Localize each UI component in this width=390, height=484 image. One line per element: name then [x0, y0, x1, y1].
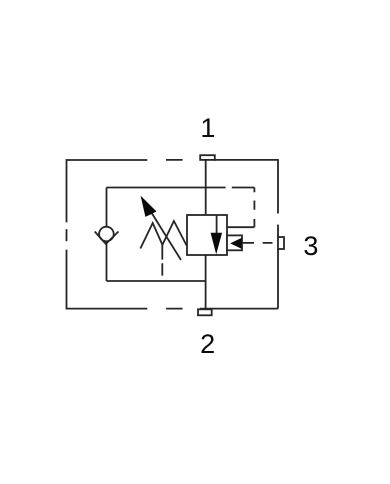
- inner envelope left edge: [106, 188, 108, 282]
- valve internal flow line: [216, 215, 218, 234]
- pilot box on valve right: [227, 235, 242, 250]
- svg-text:3: 3: [303, 231, 318, 261]
- boundary dash bottom short segment: [166, 308, 183, 310]
- svg-text:2: 2: [200, 329, 215, 359]
- port 1 marker: [200, 155, 215, 160]
- inner envelope top edge: [107, 187, 226, 189]
- boundary dash top-left segment: [67, 159, 148, 161]
- pilot dashed line to port 3: [242, 242, 273, 244]
- pilot line into valve right side: [227, 226, 254, 228]
- boundary dash left short segment: [66, 229, 68, 241]
- valve internal flow arrow (down): [211, 233, 223, 255]
- adjustment arrowhead: [141, 196, 157, 217]
- boundary dash bottom-left segment: [67, 308, 148, 310]
- wire port1 to valve top: [205, 160, 207, 215]
- wire valve bottom to port2: [205, 255, 207, 309]
- boundary dash right short segment: [277, 225, 279, 237]
- boundary dash left lower segment: [66, 250, 68, 310]
- boundary dash right lower segment: [277, 249, 279, 309]
- boundary dash left upper segment: [66, 159, 68, 222]
- boundary dash top-right segment: [215, 159, 279, 161]
- pilot line right dashes: [253, 188, 255, 228]
- boundary dash bottom-right segment: [200, 308, 278, 310]
- pilot box arrow (left): [230, 238, 241, 249]
- check valve seat V: [95, 232, 119, 244]
- pilot line top dash: [232, 187, 255, 189]
- boundary dash right upper segment: [277, 159, 279, 213]
- svg-text:1: 1: [200, 113, 215, 143]
- port 3 marker: [278, 237, 284, 249]
- port 2 marker: [198, 309, 212, 315]
- check valve circle: [99, 227, 114, 242]
- drain dashed line below spring: [161, 245, 163, 276]
- inner envelope bottom edge: [107, 280, 206, 282]
- spring (adjustable): [140, 221, 186, 249]
- adjustment arrow shaft: [147, 206, 181, 261]
- boundary dash top short segment: [166, 159, 183, 161]
- valve body square: [187, 215, 227, 255]
